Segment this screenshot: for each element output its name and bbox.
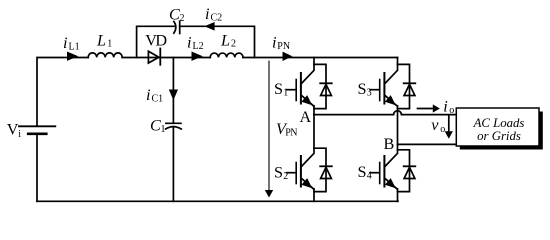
capacitor C1 [166, 58, 182, 202]
label AC Loads or Grids [473, 116, 525, 143]
current arrow iC2 [204, 22, 214, 31]
IGBT S2 [287, 115, 315, 202]
svg-text:PN: PN [277, 41, 290, 52]
svg-text:C1: C1 [152, 94, 164, 105]
wire C2 branch right [180, 26, 255, 57]
freewheel diode of S1 [314, 64, 332, 108]
svg-text:i: i [18, 129, 21, 140]
svg-text:C: C [169, 5, 180, 23]
inductor L1 [88, 53, 122, 58]
svg-text:VD: VD [145, 32, 167, 50]
label iC1 [146, 86, 163, 105]
svg-text:i: i [146, 86, 151, 104]
svg-text:i: i [272, 34, 277, 52]
wire top mid [122, 57, 210, 59]
voltage arrow VPN [265, 61, 273, 198]
svg-text:L: L [96, 32, 106, 50]
IGBT S4 [370, 144, 398, 201]
svg-text:L2: L2 [193, 41, 204, 52]
label S1 [274, 80, 288, 98]
svg-text:S: S [358, 163, 367, 181]
svg-text:2: 2 [283, 171, 288, 182]
current arrow iL2 [192, 52, 203, 61]
svg-text:L1: L1 [69, 42, 80, 53]
wire C2 branch left [137, 26, 174, 57]
svg-text:2: 2 [180, 13, 185, 24]
voltage arrow vo [445, 116, 453, 139]
svg-text:i: i [205, 5, 210, 23]
svg-text:1: 1 [283, 87, 288, 98]
AC loads box [456, 108, 539, 146]
label iC2 [205, 5, 222, 24]
svg-text:B: B [384, 135, 395, 153]
svg-text:S: S [274, 163, 283, 181]
svg-text:4: 4 [367, 171, 372, 182]
svg-text:C2: C2 [211, 13, 223, 24]
svg-text:i: i [63, 34, 68, 52]
label iPN [272, 34, 290, 53]
current arrow iL1 [67, 52, 78, 61]
wire bottom rail [37, 200, 398, 202]
voltage source Vi [19, 126, 55, 134]
svg-text:PN: PN [285, 128, 297, 139]
wire top right [243, 57, 398, 59]
svg-text:V: V [7, 121, 19, 139]
label node B [384, 135, 395, 153]
label C2 [169, 5, 185, 24]
wire node B to load [398, 143, 457, 145]
label L1 [96, 32, 112, 50]
svg-text:o: o [449, 105, 454, 116]
freewheel diode of S2 [314, 148, 332, 191]
label C1 [150, 116, 166, 135]
capacitor C2 [174, 21, 180, 33]
svg-text:A: A [300, 108, 312, 126]
svg-text:S: S [358, 80, 367, 98]
svg-text:L: L [220, 32, 230, 50]
wire left rail bottom [36, 134, 38, 201]
svg-text:v: v [431, 116, 439, 134]
svg-text:or Grids: or Grids [477, 129, 521, 143]
AC loads box shadow [460, 112, 543, 150]
svg-text:S: S [274, 80, 283, 98]
label S4 [358, 163, 372, 182]
label iL1 [63, 34, 80, 53]
label L2 [220, 32, 236, 50]
label iL2 [187, 34, 204, 53]
svg-text:AC Loads: AC Loads [473, 116, 525, 130]
freewheel diode of S4 [398, 150, 416, 192]
label VD [145, 32, 167, 50]
current arrow iC1 [169, 90, 178, 101]
wire node A to load with hop [314, 111, 456, 115]
freewheel diode of S3 [398, 64, 416, 108]
label io [443, 97, 454, 116]
IGBT S1 [287, 58, 315, 115]
svg-text:1: 1 [161, 124, 166, 135]
wire left rail top [37, 58, 88, 127]
label vo [431, 116, 445, 135]
IGBT S3 [370, 58, 398, 145]
svg-text:C: C [150, 116, 161, 134]
inductor L2 [210, 53, 243, 57]
svg-text:i: i [443, 97, 448, 115]
label Vi [7, 121, 21, 140]
svg-text:3: 3 [367, 87, 372, 98]
current arrow io [418, 104, 440, 112]
svg-text:o: o [440, 124, 445, 135]
svg-text:1: 1 [107, 39, 112, 50]
diode VD [148, 49, 160, 65]
svg-text:i: i [187, 34, 192, 52]
svg-text:2: 2 [231, 39, 236, 50]
label S2 [274, 163, 288, 182]
current arrow iPN [283, 52, 293, 61]
label node A [300, 108, 312, 126]
label S3 [358, 80, 372, 98]
label VPN [276, 120, 297, 138]
